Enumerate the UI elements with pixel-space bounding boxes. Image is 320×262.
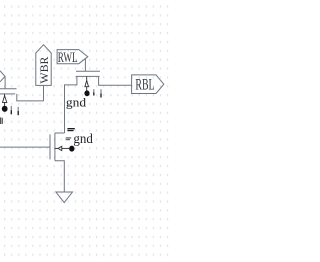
label RBL flag bbox=[132, 75, 164, 94]
svg-text:gnd: gnd bbox=[66, 95, 87, 109]
label WWL flag (cut at left edge) bbox=[0, 71, 5, 82]
transistor M1 gate bar bbox=[76, 70, 100, 72]
transistor M3 bulk arrow bbox=[55, 146, 69, 150]
svg-text:RWL: RWL bbox=[58, 50, 78, 66]
junction dot M3 bulk bbox=[69, 146, 74, 152]
transistor M2 gate bar bbox=[0, 88, 17, 90]
label RWL flag bbox=[57, 50, 88, 64]
wire M3 drain stub bbox=[55, 132, 65, 134]
wire stepped to left transistor drain bbox=[17, 94, 44, 101]
wire gate left transistor bbox=[4, 76, 6, 88]
annotation glyphs M1 bbox=[93, 89, 102, 97]
wire M1 drain to RBL bbox=[99, 76, 132, 85]
svg-text:RBL: RBL bbox=[135, 77, 154, 94]
transistor M3 gate bar bbox=[49, 134, 51, 159]
wire M3 source to ground bbox=[55, 161, 64, 192]
annotation text M3 model bbox=[67, 128, 74, 131]
annotation text M3 params bbox=[66, 137, 72, 140]
ground symbol bbox=[56, 192, 73, 203]
transistor M2 bulk arrow bbox=[3, 94, 7, 106]
wire WBR vertical bbox=[43, 85, 45, 101]
svg-text:WBR: WBR bbox=[37, 57, 51, 84]
transistor M3 channel bbox=[54, 133, 56, 161]
junction dot M1 bulk bbox=[84, 90, 89, 96]
grid dots bbox=[0, 0, 170, 262]
wire gate lower transistor bbox=[0, 146, 50, 148]
wire M1 source down-left bbox=[65, 76, 77, 133]
svg-text:gnd: gnd bbox=[73, 132, 92, 147]
wire RWL to gate bbox=[84, 58, 86, 71]
label WBR flag bbox=[36, 45, 51, 86]
transistor M2 channel bbox=[0, 93, 15, 95]
annotation glyphs M2 bbox=[0, 106, 19, 124]
transistor M1 channel bbox=[76, 75, 100, 77]
transistor M1 bulk arrow bbox=[85, 76, 89, 90]
junction dot M2 bulk bbox=[2, 106, 8, 112]
